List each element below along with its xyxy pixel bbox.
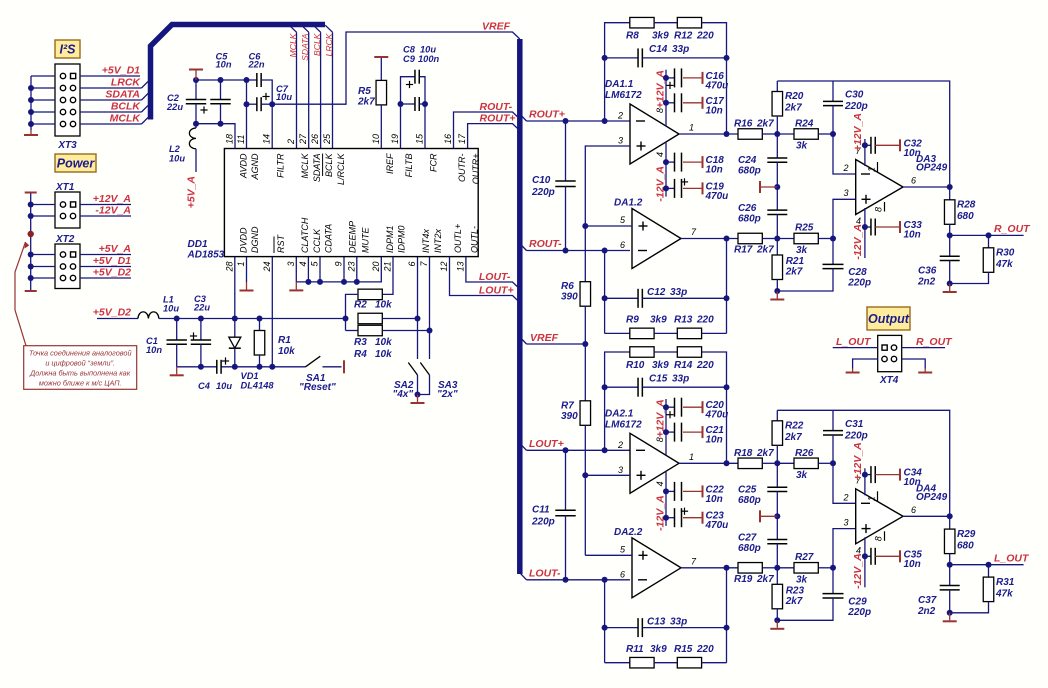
svg-text:47k: 47k xyxy=(995,259,1013,270)
svg-text:+12V_A: +12V_A xyxy=(93,193,131,205)
svg-text:15: 15 xyxy=(415,133,425,144)
op-amp DA1.1 xyxy=(605,70,694,197)
svg-text:10k: 10k xyxy=(278,346,295,357)
svg-text:R19: R19 xyxy=(734,574,753,585)
svg-text:INT4x: INT4x xyxy=(421,228,431,253)
svg-text:R2: R2 xyxy=(354,300,367,311)
svg-text:17: 17 xyxy=(457,133,467,144)
ground mid (DA3) xyxy=(760,181,780,193)
svg-text:220p: 220p xyxy=(847,278,871,289)
net SDATA (XT3) xyxy=(80,89,148,101)
capacitor C18 xyxy=(663,153,724,176)
capacitor C20 xyxy=(663,398,728,421)
svg-text:1: 1 xyxy=(867,167,877,172)
svg-text:R22: R22 xyxy=(785,420,804,431)
svg-text:10k: 10k xyxy=(375,337,392,348)
capacitor C9 xyxy=(398,54,440,111)
svg-text:3: 3 xyxy=(618,465,623,475)
capacitor C4 xyxy=(198,357,232,391)
svg-text:C29: C29 xyxy=(848,596,867,607)
resistor R3 xyxy=(354,313,421,348)
svg-text:-12V_A: -12V_A xyxy=(852,224,864,260)
svg-text:2n2: 2n2 xyxy=(917,606,936,617)
svg-text:1: 1 xyxy=(867,496,877,501)
resistor R24 xyxy=(777,119,855,175)
svg-text:10n: 10n xyxy=(706,105,723,116)
net VREF top xyxy=(272,21,520,105)
svg-text:MCLK: MCLK xyxy=(110,113,142,125)
svg-text:IREF: IREF xyxy=(385,153,395,174)
svg-text:R31: R31 xyxy=(996,577,1015,588)
node star ground point xyxy=(28,231,34,237)
svg-text:680p: 680p xyxy=(738,214,761,225)
capacitor C25 xyxy=(738,463,787,516)
net LOUT+ (from DAC) xyxy=(450,257,520,303)
svg-text:OUTR-: OUTR- xyxy=(457,154,467,183)
capacitor C11 xyxy=(531,450,576,580)
ground filter (DA3) xyxy=(770,291,784,300)
svg-text:ROUT+: ROUT+ xyxy=(529,109,565,121)
switch SA2 4x xyxy=(393,257,421,400)
net SDATA (to DAC) xyxy=(300,25,310,148)
svg-text:27: 27 xyxy=(298,133,308,145)
net L_OUT xyxy=(950,552,1030,567)
resistor R1 xyxy=(254,319,295,367)
capacitor C29 xyxy=(777,568,871,621)
svg-text:R10: R10 xyxy=(626,360,645,371)
svg-text:3k9: 3k9 xyxy=(652,31,669,42)
wire RST net xyxy=(271,257,273,367)
resistor R4 xyxy=(346,319,433,361)
svg-text:Точка соединения аналоговой: Точка соединения аналоговой xyxy=(29,349,132,358)
svg-text:8: 8 xyxy=(874,207,884,212)
svg-text:3k: 3k xyxy=(796,470,808,481)
capacitor C14 xyxy=(602,44,730,67)
svg-text:2: 2 xyxy=(617,440,623,450)
svg-text:ROUT-: ROUT- xyxy=(529,238,562,250)
capacitor C28 xyxy=(777,239,871,292)
net MCLK (to DAC) xyxy=(288,25,298,148)
svg-text:390: 390 xyxy=(561,292,578,303)
svg-text:3k: 3k xyxy=(796,245,808,256)
net +5V_D1 (XT3) xyxy=(80,65,140,77)
svg-text:OUTL+: OUTL+ xyxy=(453,224,463,253)
net +12V_A (DA3) xyxy=(852,113,864,151)
svg-text:10n: 10n xyxy=(706,435,723,446)
capacitor C22 xyxy=(663,482,724,505)
svg-text:2k7: 2k7 xyxy=(785,267,803,278)
svg-text:R1: R1 xyxy=(278,335,291,346)
svg-text:R23: R23 xyxy=(786,585,805,596)
svg-text:CLATCH: CLATCH xyxy=(300,217,310,253)
resistor R30 xyxy=(947,235,1015,286)
wire R-channel bias xyxy=(582,146,632,282)
svg-text:AGND: AGND xyxy=(250,153,260,181)
svg-text:10n: 10n xyxy=(904,148,921,159)
svg-text:"Reset": "Reset" xyxy=(299,382,336,393)
svg-text:3: 3 xyxy=(286,262,296,267)
svg-text:100n: 100n xyxy=(418,54,440,64)
net BCLK (XT3) xyxy=(80,101,148,113)
svg-text:220: 220 xyxy=(696,360,714,371)
svg-text:10u: 10u xyxy=(420,45,436,55)
svg-text:3k: 3k xyxy=(796,574,808,585)
net LOUT- row xyxy=(520,567,630,583)
wire AGND pin11 xyxy=(244,80,250,149)
svg-text:R12: R12 xyxy=(674,31,693,42)
capacitor C31 xyxy=(823,410,868,463)
resistor R21 xyxy=(772,239,804,295)
svg-text:IDPM0: IDPM0 xyxy=(397,225,407,253)
svg-text:C30: C30 xyxy=(845,90,864,101)
svg-text:R30: R30 xyxy=(996,248,1015,259)
svg-text:23: 23 xyxy=(346,262,356,273)
svg-text:22u: 22u xyxy=(166,102,183,112)
svg-text:OP249: OP249 xyxy=(916,492,948,503)
capacitor C21 xyxy=(663,423,724,446)
svg-text:R_OUT: R_OUT xyxy=(916,336,953,348)
svg-text:FILTR: FILTR xyxy=(276,153,286,178)
svg-text:C27: C27 xyxy=(738,532,757,543)
svg-text:LOUT+: LOUT+ xyxy=(529,438,564,450)
svg-text:3: 3 xyxy=(844,188,849,198)
svg-text:6: 6 xyxy=(407,262,417,267)
capacitor C15 xyxy=(602,373,730,396)
svg-text:C25: C25 xyxy=(738,484,757,495)
wire DVDD net xyxy=(234,257,236,319)
net +5V_D1 (XT2) xyxy=(80,255,131,267)
resistor R27 xyxy=(777,529,855,586)
note ground-connection xyxy=(24,346,137,390)
svg-text:DVDD: DVDD xyxy=(238,227,248,253)
svg-text:-12V_A: -12V_A xyxy=(655,495,667,531)
svg-text:680p: 680p xyxy=(738,166,761,177)
svg-text:10u: 10u xyxy=(169,154,185,164)
svg-text:SDATA: SDATA xyxy=(312,154,322,183)
svg-text:LOUT+: LOUT+ xyxy=(479,284,514,296)
svg-text:10n: 10n xyxy=(146,345,162,355)
svg-text:33p: 33p xyxy=(670,616,687,627)
svg-text:2: 2 xyxy=(286,139,296,145)
svg-text:FCR: FCR xyxy=(429,153,439,172)
svg-text:10u: 10u xyxy=(276,92,292,102)
label Output xyxy=(867,307,910,330)
svg-text:2k7: 2k7 xyxy=(756,245,774,256)
svg-text:6: 6 xyxy=(620,240,625,250)
svg-text:22n: 22n xyxy=(248,60,265,70)
svg-text:L_OUT: L_OUT xyxy=(836,336,872,348)
svg-text:220p: 220p xyxy=(844,101,868,112)
svg-text:1: 1 xyxy=(236,262,246,267)
svg-text:28: 28 xyxy=(224,262,234,273)
net MCLK (XT3) xyxy=(80,113,148,125)
svg-text:C10: C10 xyxy=(532,175,551,186)
resistor R10 xyxy=(605,347,670,451)
svg-text:C28: C28 xyxy=(848,267,867,278)
svg-text:R_OUT: R_OUT xyxy=(994,223,1031,235)
svg-text:2k7: 2k7 xyxy=(785,596,803,607)
net -12V_A (DA2.1) xyxy=(655,495,667,531)
svg-text:470u: 470u xyxy=(705,410,729,421)
svg-text:C13: C13 xyxy=(647,616,666,627)
svg-text:R28: R28 xyxy=(957,200,976,211)
net +5V_A label xyxy=(186,176,198,208)
svg-text:R13: R13 xyxy=(674,315,693,326)
wire AGND rail xyxy=(193,77,250,83)
ground output (DA3) xyxy=(943,284,957,293)
label I2S xyxy=(55,40,80,58)
svg-text:6: 6 xyxy=(911,505,916,515)
capacitor C37 xyxy=(917,565,960,617)
net +12V_A (XT1) xyxy=(80,193,131,205)
svg-text:DEEMP: DEEMP xyxy=(348,221,358,253)
svg-text:R29: R29 xyxy=(957,529,976,540)
svg-text:BCLK: BCLK xyxy=(324,153,334,178)
svg-text:R14: R14 xyxy=(674,360,693,371)
inductor L2 xyxy=(169,124,196,172)
svg-text:3k9: 3k9 xyxy=(650,315,667,326)
svg-text:LM6172: LM6172 xyxy=(605,419,642,430)
capacitor C1 xyxy=(146,319,187,367)
resistor R31 xyxy=(947,565,1015,616)
net -12V_A (DA3) xyxy=(852,224,864,260)
svg-text:680: 680 xyxy=(957,540,974,551)
svg-text:C11: C11 xyxy=(532,504,550,515)
svg-text:LRCK: LRCK xyxy=(324,32,334,56)
svg-text:-12V_A: -12V_A xyxy=(852,553,864,589)
wire power ground rail xyxy=(25,193,55,292)
svg-text:2k7: 2k7 xyxy=(756,119,774,130)
svg-text:470u: 470u xyxy=(705,80,729,91)
svg-text:DA1.2: DA1.2 xyxy=(614,198,643,209)
net ROUT+ row xyxy=(520,109,630,125)
svg-text:+5V_D1: +5V_D1 xyxy=(102,65,140,77)
svg-text:10n: 10n xyxy=(216,60,232,70)
svg-text:680: 680 xyxy=(957,211,974,222)
capacitor C26 xyxy=(738,187,787,239)
wire control rail xyxy=(296,257,381,285)
svg-text:MCLK: MCLK xyxy=(288,32,298,57)
svg-text:10n: 10n xyxy=(706,494,723,505)
svg-text:2k7: 2k7 xyxy=(756,448,774,459)
resistor R16 xyxy=(679,119,780,140)
connector XT2 xyxy=(55,234,80,289)
svg-text:Output: Output xyxy=(868,312,910,326)
net VREF mid xyxy=(520,332,589,347)
net ROUT+ (from DAC) xyxy=(468,113,520,149)
capacitor C10 xyxy=(531,121,576,251)
svg-text:+5V_D1: +5V_D1 xyxy=(93,255,131,267)
net +5V_D2 (XT2) xyxy=(80,267,131,279)
svg-text:C14: C14 xyxy=(649,44,668,55)
resistor R17 xyxy=(681,233,780,255)
svg-text:I²S: I²S xyxy=(60,43,77,57)
svg-text:33p: 33p xyxy=(672,44,689,55)
ground filter (DA4) xyxy=(770,620,784,629)
svg-text:220: 220 xyxy=(696,644,714,655)
svg-text:6: 6 xyxy=(620,569,625,579)
svg-text:R24: R24 xyxy=(795,119,814,130)
resistor R11 xyxy=(605,644,668,668)
wire output rail (DA4) xyxy=(777,410,952,519)
svg-text:AD1853: AD1853 xyxy=(187,250,225,261)
svg-text:10n: 10n xyxy=(706,165,723,176)
net +12V_A (DA1.1) xyxy=(655,70,667,108)
svg-text:"4x": "4x" xyxy=(393,389,414,400)
svg-text:220p: 220p xyxy=(847,607,871,618)
ground SA2/SA3 xyxy=(411,395,425,404)
wire DA1.2 fb rails xyxy=(602,236,730,334)
resistor R2 xyxy=(346,257,394,319)
svg-text:LOUT-: LOUT- xyxy=(479,271,511,283)
svg-text:AVDD: AVDD xyxy=(238,153,248,179)
ground mid (DA4) xyxy=(760,510,780,522)
capacitor C2 xyxy=(166,80,208,124)
net LOUT- (from DAC) xyxy=(466,257,520,289)
wire +5V_D2 rail xyxy=(159,316,349,322)
capacitor C36 xyxy=(917,235,960,287)
svg-text:3k9: 3k9 xyxy=(650,644,667,655)
svg-text:10n: 10n xyxy=(904,559,921,570)
ground digital star xyxy=(170,367,184,376)
svg-text:1: 1 xyxy=(689,452,694,462)
svg-text:DGND: DGND xyxy=(250,226,260,253)
ground output (DA4) xyxy=(943,613,957,622)
capacitor C6 xyxy=(247,52,273,149)
svg-text:220p: 220p xyxy=(844,430,868,441)
net LRCK (to DAC) xyxy=(324,25,334,148)
svg-text:R3: R3 xyxy=(354,337,367,348)
capacitor C30 xyxy=(823,81,868,134)
svg-text:10n: 10n xyxy=(904,477,921,488)
svg-text:220p: 220p xyxy=(531,187,555,198)
inductor L1 xyxy=(97,295,179,319)
svg-text:10: 10 xyxy=(371,134,381,144)
svg-text:LOUT-: LOUT- xyxy=(529,567,561,579)
svg-text:C26: C26 xyxy=(738,203,757,214)
svg-text:4: 4 xyxy=(655,481,665,486)
resistor R20 xyxy=(772,81,804,134)
svg-text:2: 2 xyxy=(843,163,849,173)
capacitor C8 xyxy=(401,45,437,149)
capacitor C13 xyxy=(605,616,727,637)
svg-text:R17: R17 xyxy=(734,245,753,256)
net LOUT+ row xyxy=(520,438,630,454)
resistor R14 xyxy=(654,347,726,464)
capacitor C27 xyxy=(738,516,787,568)
svg-text:R26: R26 xyxy=(795,448,814,459)
wire reset rail xyxy=(177,364,306,370)
resistor R22 xyxy=(772,410,804,463)
svg-text:2k7: 2k7 xyxy=(756,574,774,585)
svg-text:2: 2 xyxy=(843,492,849,502)
resistor R12 xyxy=(654,17,726,134)
svg-text:RST: RST xyxy=(276,233,286,253)
svg-text:33p: 33p xyxy=(672,373,689,384)
resistor R15 xyxy=(654,644,726,668)
op-amp DA2.2 xyxy=(614,527,697,598)
svg-text:+5V_A: +5V_A xyxy=(99,243,131,255)
svg-text:2k7: 2k7 xyxy=(784,103,802,114)
svg-text:ROUT+: ROUT+ xyxy=(480,113,516,125)
op-amp DA1.2 xyxy=(614,198,697,269)
resistor R6 xyxy=(561,281,591,344)
net -12V_A (DA1.1) xyxy=(655,166,667,202)
capacitor C19 xyxy=(663,178,728,202)
svg-text:20: 20 xyxy=(371,262,381,273)
svg-text:C37: C37 xyxy=(918,595,937,606)
net +5V_A (XT2) xyxy=(80,243,131,255)
ground DGND xyxy=(240,257,254,291)
ground XT4 left xyxy=(846,359,878,373)
capacitor C24 xyxy=(738,134,787,187)
svg-text:+5V_D2: +5V_D2 xyxy=(93,307,131,319)
arrow note-to-star xyxy=(15,241,30,346)
svg-text:BCLK: BCLK xyxy=(111,101,142,113)
op-amp DA2.1 xyxy=(605,399,694,526)
svg-text:3k9: 3k9 xyxy=(652,360,669,371)
svg-text:ROUT-: ROUT- xyxy=(480,101,513,113)
svg-text:VD1: VD1 xyxy=(241,371,259,381)
svg-text:OUTR+: OUTR+ xyxy=(471,154,481,185)
wire XT3 ground rail xyxy=(28,76,55,130)
net R_OUT xyxy=(950,223,1031,238)
resistor R29 xyxy=(903,516,976,567)
svg-text:MCLK: MCLK xyxy=(300,153,310,179)
svg-text:R25: R25 xyxy=(795,223,814,234)
svg-text:"2x": "2x" xyxy=(437,389,458,400)
svg-text:25: 25 xyxy=(322,133,332,145)
bus analog right xyxy=(517,39,523,574)
svg-text:SDATA: SDATA xyxy=(300,33,310,61)
wire AVDD rail xyxy=(193,121,235,149)
op-amp DA4 xyxy=(843,468,948,587)
svg-text:220: 220 xyxy=(696,31,714,42)
svg-text:DD1: DD1 xyxy=(188,239,208,250)
svg-text:R9: R9 xyxy=(626,315,639,326)
svg-text:R18: R18 xyxy=(734,448,753,459)
resistor R26 xyxy=(777,448,855,504)
capacitor C35 xyxy=(862,548,922,570)
svg-text:10u: 10u xyxy=(163,304,179,314)
capacitor C3 xyxy=(190,294,211,367)
svg-text:SDATA: SDATA xyxy=(105,89,140,101)
svg-text:+5V_A: +5V_A xyxy=(186,176,198,208)
svg-text:LRCK: LRCK xyxy=(111,77,142,89)
svg-text:C9: C9 xyxy=(403,54,416,64)
net +12V_A (DA4) xyxy=(852,442,864,480)
svg-text:4: 4 xyxy=(655,152,665,157)
svg-text:L_OUT: L_OUT xyxy=(994,552,1030,564)
label Power xyxy=(55,154,96,172)
wire L-channel bias xyxy=(582,472,632,555)
ground XT4 right xyxy=(902,359,933,373)
svg-text:11: 11 xyxy=(236,135,246,144)
svg-text:INT2x: INT2x xyxy=(433,228,443,253)
svg-text:MUTE: MUTE xyxy=(360,227,370,253)
svg-text:680p: 680p xyxy=(738,495,761,506)
svg-text:22u: 22u xyxy=(193,303,210,313)
svg-text:можно ближе к м/с ЦАП.: можно ближе к м/с ЦАП. xyxy=(39,379,122,388)
net L_OUT (XT4) xyxy=(833,336,878,348)
capacitor C16 xyxy=(663,68,728,91)
svg-text:2k7: 2k7 xyxy=(357,97,375,108)
switch SA3 2x xyxy=(418,257,458,400)
resistor R7 xyxy=(561,344,591,475)
net ROUT- row xyxy=(520,238,630,254)
connector XT4 xyxy=(878,335,902,386)
svg-text:2k7: 2k7 xyxy=(784,432,802,443)
